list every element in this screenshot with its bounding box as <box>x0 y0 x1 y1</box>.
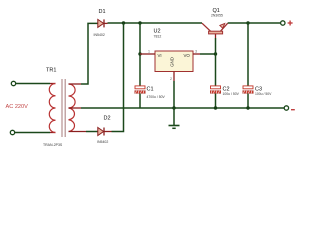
label IN5402 (D1 value) <box>94 33 105 37</box>
svg-text:4700u / 50V: 4700u / 50V <box>147 95 166 99</box>
primary pin stubs <box>50 83 56 85</box>
terminal output + <box>281 21 285 25</box>
terminal AC bottom <box>10 130 14 134</box>
svg-text:D2: D2 <box>104 116 111 122</box>
wire Q1 base <box>215 34 217 54</box>
svg-text:100u / 50V: 100u / 50V <box>255 92 272 96</box>
junction base node / C2 riser <box>214 52 217 55</box>
emitter arrow <box>220 23 225 28</box>
label C3 <box>255 87 262 93</box>
label + <box>288 21 293 26</box>
voltage regulator U2 7812 <box>140 50 200 82</box>
svg-text:3: 3 <box>195 50 197 54</box>
capacitor C3 100u <box>243 86 254 94</box>
wire secondary top to D1 anode <box>81 23 98 84</box>
pin GND stub <box>173 72 175 82</box>
primary winding (4 loops, bulge left) <box>49 84 55 133</box>
ground symbol <box>169 108 180 128</box>
svg-text:TR1: TR1 <box>46 68 56 74</box>
wire AC top to transformer primary <box>16 83 50 85</box>
svg-text:VI: VI <box>158 53 162 58</box>
junction U2 VI pin / C1 riser <box>138 52 141 55</box>
label IN5402 (D2 value) <box>97 140 108 144</box>
diode D2 IN5402 <box>98 128 112 136</box>
secondary pin stubs <box>69 83 82 85</box>
junction U2 GND / bus <box>172 106 175 109</box>
svg-text:D1: D1 <box>99 9 106 15</box>
collector lead <box>202 23 211 31</box>
svg-text:C1: C1 <box>147 87 154 93</box>
wire secondary bottom to D2 anode <box>86 131 98 133</box>
label TR1 <box>46 68 56 74</box>
terminal output - <box>284 106 288 110</box>
svg-text:7812: 7812 <box>154 34 162 38</box>
terminal AC top <box>11 81 15 85</box>
svg-text:IN5402: IN5402 <box>97 140 108 144</box>
transformer TR1 <box>49 79 86 137</box>
label 7812 (U2 value) <box>154 34 162 38</box>
junction C2 / bus <box>214 106 217 109</box>
label C1 <box>147 87 154 93</box>
svg-text:1: 1 <box>148 50 150 54</box>
svg-text:100u / 50V: 100u / 50V <box>223 92 240 96</box>
wire C3 riser <box>247 23 249 108</box>
label 100u/50V (C2 value) <box>223 92 240 96</box>
capacitor C2 100u <box>210 86 221 94</box>
label C2 <box>223 87 230 93</box>
junction C3 / bus <box>246 106 249 109</box>
junction C3 riser / top rail <box>246 21 249 24</box>
wire C1 bottom lead to bus <box>139 94 141 109</box>
secondary winding upper (2 loops, bulge right) <box>69 84 76 108</box>
label AC 220V <box>6 104 29 110</box>
wire top rail (rectified V+) <box>108 22 203 24</box>
wire D2 cathode riser to top rail <box>112 23 124 132</box>
label TRAN-2P3S <box>43 143 63 147</box>
label Q1 <box>213 8 220 14</box>
svg-text:GND: GND <box>170 57 175 67</box>
wire C1 riser from top rail <box>139 23 141 86</box>
label - <box>291 109 295 111</box>
junction D2 riser / top rail <box>122 21 125 24</box>
wire emitter output rail <box>228 22 281 24</box>
wire ground bus (center tap) <box>81 107 284 109</box>
label 4700u/50V (C1 value) <box>147 95 166 99</box>
svg-text:IN5402: IN5402 <box>94 33 105 37</box>
pin VI stub <box>140 53 155 55</box>
svg-text:2N3055: 2N3055 <box>211 14 223 18</box>
emitter lead <box>221 23 228 31</box>
label U2 <box>154 29 161 35</box>
label D2 <box>104 116 111 122</box>
capacitor C1 4700u (electrolytic) <box>135 86 146 94</box>
label 100u/50V (C3 value) <box>255 92 272 96</box>
wire U2 GND to bus <box>173 81 175 108</box>
diode D1 IN5402 <box>98 19 108 27</box>
junction C1 riser / top rail <box>138 21 141 24</box>
svg-text:AC 220V: AC 220V <box>6 104 29 110</box>
svg-text:2: 2 <box>170 77 172 81</box>
svg-text:TRAN-2P3S: TRAN-2P3S <box>43 143 63 147</box>
secondary winding lower (2 loops, bulge right) <box>69 108 75 132</box>
label D1 <box>99 9 106 15</box>
wire C2 riser <box>215 54 217 108</box>
svg-text:VO: VO <box>184 53 191 58</box>
core <box>61 79 63 137</box>
wire AC bottom to transformer primary <box>15 132 50 134</box>
label 2N3055 (Q1 value) <box>211 14 223 18</box>
transistor Q1 2N3055 <box>202 23 228 34</box>
wire U2 VO to Q1 base node <box>200 53 216 55</box>
base bar <box>209 31 223 34</box>
pin VO stub <box>193 53 200 55</box>
